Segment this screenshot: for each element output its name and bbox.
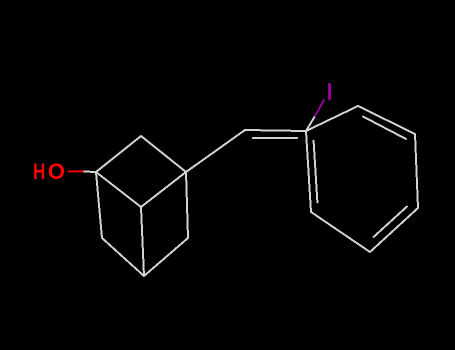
benzene ring edge bottom-left xyxy=(311,212,370,252)
benzene ring edge left xyxy=(306,131,311,212)
svg-text:O: O xyxy=(48,159,65,184)
adamantane cage C3-C4 edge xyxy=(141,172,186,207)
adamantane cage C2-C3 edge xyxy=(141,136,186,172)
adamantane cage left leg xyxy=(96,172,102,238)
adamantane cage bowl right xyxy=(144,238,188,276)
O-C bond red half xyxy=(68,170,84,172)
bond to iodine gray half xyxy=(306,116,315,131)
benzene ring edge right xyxy=(415,134,418,208)
bond to iodine purple half xyxy=(315,100,324,116)
adamantane cage center bond xyxy=(141,207,144,276)
benzene inner double bond bottom-right xyxy=(374,207,408,238)
adamantane cage bowl left xyxy=(102,238,144,276)
benzene inner double bond top-right xyxy=(363,117,406,140)
benzene ring edge bottom-right xyxy=(370,208,418,252)
svg-text:I: I xyxy=(326,78,333,104)
adamantane cage C1-C2 edge xyxy=(96,136,141,172)
svg-text:H: H xyxy=(33,159,45,184)
wire chain bond 1 xyxy=(186,130,245,172)
adamantane cage right leg xyxy=(186,172,188,238)
wire chain bond 2 (C=C main) xyxy=(245,130,306,131)
benzene inner double bond left xyxy=(314,141,318,203)
benzene ring edge top-right xyxy=(358,106,415,134)
wire chain double bond inner line xyxy=(253,137,297,139)
adamantane cage C4-C1 edge xyxy=(96,172,141,207)
wire O-C bond gray half xyxy=(84,171,96,174)
benzene ring edge TL xyxy=(306,106,358,131)
